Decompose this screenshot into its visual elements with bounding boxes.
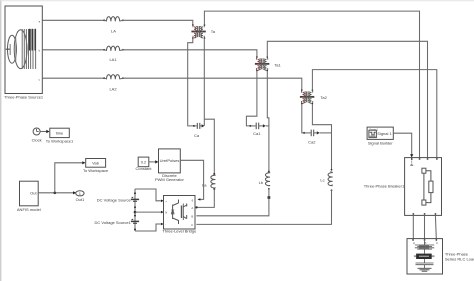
svg-text:Vab: Vab	[92, 161, 100, 166]
svg-text:Ta2: Ta2	[320, 95, 327, 100]
svg-text:Ca2: Ca2	[308, 140, 316, 145]
wire La to bridge A	[196, 189, 214, 207]
svg-text:Ta1: Ta1	[274, 62, 281, 67]
svg-text:Ca1: Ca1	[253, 131, 261, 136]
wire breaker to load c	[434, 215, 437, 238]
inductor La	[202, 173, 216, 190]
svg-text:La: La	[202, 182, 207, 187]
capacitor Ca1	[249, 123, 269, 136]
wire PWM pulses to bridge g	[180, 160, 203, 199]
wire Ta1 primary bottom to Ca1	[246, 71, 257, 126]
inductor LA	[103, 17, 124, 34]
svg-text:DC Voltage Source1: DC Voltage Source1	[95, 220, 132, 225]
transformer Ta	[191, 24, 215, 39]
svg-text:Out: Out	[30, 190, 37, 195]
wire Ta2 secondary top to breaker line c	[312, 70, 436, 158]
DC link vertical wire	[134, 189, 136, 231]
load icon inductor box	[414, 255, 416, 257]
svg-text:ANFIS model: ANFIS model	[17, 207, 41, 212]
svg-text:Lc: Lc	[320, 178, 324, 183]
wire Ta2 primary bottom to Ca2	[302, 104, 304, 133]
ANFIS model block	[17, 181, 41, 212]
wire DC N to bridge	[135, 211, 161, 213]
capacitor Ca2	[303, 130, 331, 145]
constant block 0.2	[135, 157, 152, 171]
discrete PWM generator block	[155, 149, 185, 182]
svg-text:C: C	[191, 223, 193, 227]
svg-text:Signal 1: Signal 1	[377, 131, 392, 136]
wire DC+ to bridge	[135, 189, 161, 201]
wire jog to La	[204, 119, 214, 174]
wire Ta1 secondary top to breaker line b	[267, 41, 427, 157]
wire junction up to Vab	[55, 163, 83, 193]
bridge IGBT icon	[171, 200, 187, 225]
svg-text:C: C	[436, 241, 438, 245]
svg-text:0.2: 0.2	[141, 159, 147, 164]
svg-text:LA2: LA2	[109, 87, 117, 92]
transformer Ta2	[300, 89, 328, 104]
svg-text:Pulses: Pulses	[167, 158, 179, 163]
svg-text:To Workspace1: To Workspace1	[46, 138, 74, 143]
svg-text:Three-Level Bridge: Three-Level Bridge	[162, 229, 197, 234]
three-phase breaker block	[364, 158, 442, 216]
svg-text:LA1: LA1	[109, 57, 117, 62]
outport Out1	[76, 191, 85, 202]
ground	[418, 268, 432, 271]
svg-text:Three-Phase: Three-Phase	[445, 251, 469, 256]
svg-text:Three-Phase Source1: Three-Phase Source1	[4, 95, 44, 100]
inductor Lc	[320, 169, 332, 191]
svg-text:Constant: Constant	[135, 166, 152, 171]
junction node ANFIS wire	[54, 192, 57, 195]
wire Ta primary bottom to Ca	[188, 38, 194, 126]
signal builder block	[367, 127, 393, 145]
svg-text:A: A	[413, 241, 415, 245]
wire Ta secondary bottom down (stub to Ca node)	[203, 38, 205, 126]
svg-text:DC Voltage Source: DC Voltage Source	[97, 197, 132, 202]
clock block	[32, 128, 42, 142]
inductor Lb	[259, 171, 271, 190]
wire phase b LA1 to Ta1	[123, 50, 257, 57]
three-phase series RLC load block	[407, 239, 474, 274]
svg-text:Three-Phase Breaker1: Three-Phase Breaker1	[364, 184, 405, 189]
wire breaker to load b	[424, 215, 426, 238]
wire phase a from source to LA	[42, 19, 103, 21]
svg-text:Lb: Lb	[259, 180, 264, 185]
wire Lc to bridge C	[196, 190, 331, 224]
DC voltage source battery 2	[95, 215, 140, 231]
wire phase c LA2 to Ta2	[123, 78, 302, 90]
DC voltage source battery 1	[97, 192, 139, 208]
svg-text:B: B	[191, 214, 193, 218]
to-workspace block Vab	[83, 159, 109, 174]
inductor LA2	[103, 75, 124, 92]
wire Ta2 secondary bottom to Lc	[312, 104, 331, 170]
svg-text:Out1: Out1	[76, 197, 85, 202]
wire breaker to load a	[412, 215, 414, 238]
load icon capacitor rows	[415, 241, 434, 254]
svg-text:Clock: Clock	[32, 137, 42, 142]
svg-text:To Workspace: To Workspace	[83, 168, 109, 173]
svg-text:-: -	[165, 223, 166, 227]
inductor LA1	[103, 46, 124, 62]
svg-text:Series RLC Load: Series RLC Load	[445, 257, 474, 262]
capacitor Ca	[193, 123, 205, 138]
load icon lower capacitor	[416, 259, 434, 268]
wire clock to time	[40, 131, 47, 133]
wire Ta secondary top to breaker line a	[204, 11, 419, 157]
transformer Ta1	[255, 56, 282, 71]
wire phase a LA to Ta	[123, 20, 193, 25]
svg-text:time: time	[56, 131, 64, 136]
svg-text:PWM Generator: PWM Generator	[155, 177, 185, 182]
svg-text:Signal Builder: Signal Builder	[368, 140, 393, 145]
three-phase source block	[4, 6, 44, 100]
window border top	[0, 0, 474, 2]
wire phase b from source to LA1	[42, 49, 103, 51]
svg-text:A: A	[191, 206, 193, 210]
three-level bridge block	[162, 196, 197, 234]
to-workspace block time	[46, 128, 74, 143]
window border left	[0, 0, 2, 281]
wire DC- to bridge	[135, 224, 161, 231]
svg-text:LA: LA	[111, 29, 116, 34]
svg-text:N: N	[165, 211, 167, 215]
wire signal builder to breaker com	[393, 133, 411, 154]
svg-text:Ca: Ca	[194, 133, 200, 138]
source icon sine cluster	[6, 29, 36, 69]
junction node DC mid	[134, 211, 137, 214]
wire constant to PWM	[149, 161, 156, 163]
wire phase c from source to LA2	[42, 77, 103, 79]
wire Ta1 secondary bottom to Lb	[267, 71, 269, 172]
wire Lb to bridge B	[196, 189, 269, 216]
breaker icon	[410, 159, 433, 205]
wire ANFIS to Out1	[38, 192, 73, 194]
